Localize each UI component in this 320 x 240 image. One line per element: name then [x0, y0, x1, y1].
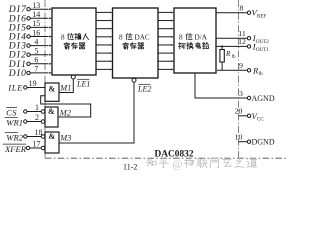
- svg-text:DGND: DGND: [252, 138, 275, 147]
- wire M1 output to LE1 latch input: [59, 75, 75, 93]
- input register U1: 8-bit input register box: [52, 8, 96, 75]
- svg-text:ILE: ILE: [7, 83, 23, 93]
- svg-text:R: R: [225, 50, 231, 58]
- pin 14 input DI6 wire: [8, 10, 52, 24]
- part label DAC0832: [155, 149, 194, 159]
- svg-text:CS: CS: [6, 107, 17, 117]
- svg-text:8: 8: [119, 34, 123, 42]
- svg-text:LE2: LE2: [137, 84, 151, 93]
- svg-text:6: 6: [34, 56, 38, 65]
- svg-text:4: 4: [34, 37, 38, 46]
- watermark zhihu: [147, 158, 257, 171]
- svg-text:@: @: [173, 159, 183, 171]
- and-gate M3 with inverting inputs: [41, 132, 71, 153]
- svg-text:19: 19: [29, 79, 37, 88]
- svg-text:1: 1: [35, 103, 39, 112]
- data bus: DAC register to D/A converter: [158, 11, 174, 70]
- wire M2 output to M1 input: [41, 96, 91, 117]
- svg-text:17: 17: [33, 140, 41, 149]
- svg-text:&: &: [48, 107, 55, 116]
- and-gate M1: [45, 83, 71, 101]
- pin 18 control WR2-bar wire: [5, 128, 43, 142]
- svg-text:AGND: AGND: [252, 94, 275, 103]
- pin 7 input DI0 wire: [8, 65, 52, 79]
- svg-text:16: 16: [32, 28, 40, 37]
- svg-text:M3: M3: [59, 134, 71, 143]
- svg-text:&: &: [49, 85, 56, 94]
- pin 15 input DI5 wire: [8, 19, 52, 33]
- svg-text:OUT2: OUT2: [256, 40, 269, 45]
- svg-text:M1: M1: [59, 84, 71, 93]
- svg-text:REF: REF: [257, 14, 266, 19]
- DAC register U2: 8-bit DAC register box: [113, 8, 159, 78]
- figure caption 11-2: [123, 163, 137, 172]
- svg-text:D/A: D/A: [195, 34, 208, 42]
- pin 2 control WR1-bar wire: [5, 113, 42, 127]
- svg-text:14: 14: [32, 10, 40, 19]
- pin 5 input DI2 wire: [8, 47, 52, 61]
- svg-text:8: 8: [240, 4, 244, 13]
- pin 16 input DI4 wire: [8, 28, 52, 42]
- svg-text:OUT1: OUT1: [256, 48, 269, 53]
- svg-text:20: 20: [235, 107, 243, 116]
- pin 6 input DI1 wire: [8, 56, 52, 70]
- svg-text:5: 5: [34, 47, 38, 56]
- svg-text:fb: fb: [259, 72, 264, 77]
- svg-text:11-2: 11-2: [123, 163, 137, 172]
- pin 10 ground DGND wire: [235, 133, 275, 147]
- svg-text:8: 8: [61, 34, 65, 42]
- node LE1 label: [76, 79, 90, 88]
- svg-text:DAC: DAC: [135, 34, 150, 42]
- svg-text:M2: M2: [59, 109, 71, 118]
- svg-text:3: 3: [239, 89, 243, 98]
- svg-text:WR1: WR1: [6, 117, 23, 127]
- svg-text:fb: fb: [232, 55, 237, 60]
- data bus: input register to DAC register: [96, 11, 113, 70]
- svg-text:9: 9: [239, 61, 243, 70]
- svg-text:DI0: DI0: [8, 68, 27, 79]
- wire M3 output to LE2 latch input: [59, 78, 136, 143]
- pin 1 control CS-bar wire: [6, 103, 41, 117]
- pin 9 feedback Rfb wire: [217, 61, 263, 77]
- pin 3 ground AGND wire: [195, 73, 275, 103]
- pin 13 input DI7 wire: [8, 1, 52, 15]
- chip boundary (dash-dot outline of DAC0832): [45, 0, 287, 158]
- pin 19 control ILE wire: [7, 79, 45, 93]
- pin 12 output IOUT1 wire: [216, 37, 269, 53]
- svg-text:12: 12: [238, 37, 246, 46]
- svg-text:15: 15: [32, 19, 40, 28]
- svg-text:XFER: XFER: [4, 144, 27, 154]
- svg-text:LE1: LE1: [76, 79, 90, 88]
- pin 11 output IOUT2 wire: [216, 29, 269, 45]
- node LE2 label: [137, 84, 151, 93]
- svg-text:13: 13: [32, 1, 40, 10]
- D/A converter U3: 8-bit D/A conversion circuit box: [174, 8, 216, 73]
- svg-text:WR2: WR2: [6, 132, 23, 142]
- and-gate M2 with inverting inputs: [41, 107, 71, 127]
- resistor Rfb (internal feedback): [220, 45, 236, 70]
- svg-text:7: 7: [34, 65, 38, 74]
- pin 4 input DI3 wire: [8, 37, 52, 51]
- svg-text:CC: CC: [257, 117, 264, 122]
- pin 20 power VCC wire: [235, 107, 265, 123]
- svg-text:&: &: [49, 132, 56, 141]
- svg-text:2: 2: [35, 113, 39, 122]
- svg-text:10: 10: [235, 133, 243, 142]
- svg-text:8: 8: [179, 34, 183, 42]
- pin 8 reference VREF wire: [216, 4, 266, 20]
- pin 17 control XFER-bar wire: [3, 140, 41, 154]
